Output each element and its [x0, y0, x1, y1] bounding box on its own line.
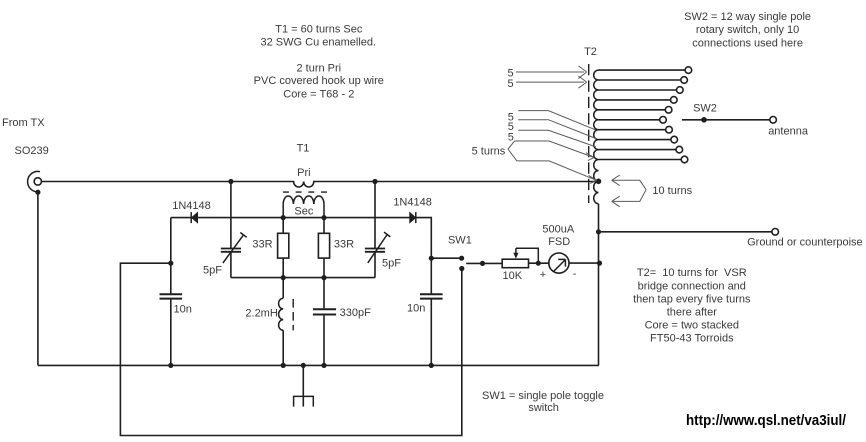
annotation line 5-5 — [518, 130, 596, 147]
switch SW1 — [431, 256, 502, 272]
wire T2 bottom lead — [598, 204, 600, 366]
terminal ground — [772, 229, 779, 236]
note T2 winding text block — [633, 267, 751, 345]
node SO239 shield junction — [35, 190, 40, 195]
tap 7 wire — [599, 129, 666, 131]
switch SW2 pole wire — [682, 119, 770, 121]
svg-text:Pri: Pri — [297, 167, 310, 179]
svg-text:+: + — [540, 269, 546, 281]
node pot wiper junction — [536, 261, 541, 266]
svg-text:there after: there after — [667, 307, 717, 319]
transformer T1 secondary winding — [283, 196, 324, 218]
svg-text:rotary switch, only 10: rotary switch, only 10 — [696, 24, 799, 36]
svg-text:SW2 = 12 way single pole: SW2 = 12 way single pole — [684, 11, 811, 23]
svg-text:antenna: antenna — [768, 126, 809, 138]
connector J1 SO239 center pin — [34, 178, 41, 185]
svg-text:Sec: Sec — [294, 206, 313, 218]
potentiometer R3 10K — [502, 248, 538, 268]
svg-text:5: 5 — [508, 78, 514, 90]
svg-text:1N4148: 1N4148 — [393, 197, 432, 209]
annotation line 5-1 — [516, 66, 587, 79]
annotation 5 turns lower branch — [508, 149, 597, 183]
resistor R1 33R left — [278, 218, 289, 278]
inductor L1 2.2mH — [279, 278, 284, 366]
node bottom rail 330pF leg — [321, 363, 326, 368]
tap 5 terminal — [665, 107, 672, 114]
node mid rail right resistor leg — [321, 275, 326, 280]
svg-text:T1: T1 — [297, 143, 310, 155]
svg-text:10n: 10n — [174, 304, 192, 316]
svg-text:5pF: 5pF — [203, 265, 222, 277]
node ground branch junction — [596, 229, 601, 234]
transformer T1 core dashed line — [283, 191, 327, 193]
tap 9 terminal — [676, 146, 683, 153]
tap 4 terminal — [671, 97, 678, 104]
wire pot to meter — [529, 262, 549, 264]
capacitor C1 trimmer arrow — [223, 233, 247, 264]
svg-text:http://www.qsl.net/va3iul/: http://www.qsl.net/va3iul/ — [686, 412, 847, 429]
diode D1 1N4148 left — [191, 212, 197, 223]
node bottom rail 10n left — [168, 363, 173, 368]
tap 10 terminal — [681, 156, 688, 163]
note SW2 text block — [684, 11, 811, 50]
capacitor C3 330pF — [313, 278, 336, 366]
svg-text:5: 5 — [508, 131, 514, 143]
tap 7 terminal — [666, 126, 673, 133]
node bottom rail inductor leg — [281, 363, 286, 368]
svg-text:33R: 33R — [334, 239, 354, 251]
node T2 return meter junction — [597, 261, 602, 266]
svg-text:2 turn Pri: 2 turn Pri — [296, 63, 341, 75]
wire meter to T2 return — [569, 262, 600, 264]
svg-text:bridge connection and: bridge connection and — [638, 280, 746, 292]
connector J1 SO239 body arc — [28, 171, 40, 191]
svg-text:FT50-43 Torroids: FT50-43 Torroids — [650, 333, 734, 345]
capacitor C1 plates — [221, 249, 241, 252]
tap 5 wire — [599, 109, 666, 111]
node bottom rail ground leg — [301, 363, 306, 368]
svg-text:10n: 10n — [407, 303, 425, 315]
annotation 10 turns lower arrow — [612, 190, 646, 207]
resistor R2 33R right — [318, 218, 329, 278]
svg-text:then tap every five turns: then tap every five turns — [633, 293, 751, 305]
tap 4 wire — [599, 99, 671, 101]
tap 3 wire — [599, 89, 677, 91]
terminal antenna — [770, 117, 777, 124]
note T1 winding text block — [254, 23, 384, 100]
svg-text:32 SWG Cu enamelled.: 32 SWG Cu enamelled. — [261, 37, 377, 49]
transformer T2 winding — [594, 70, 599, 204]
diode D2 1N4148 right — [410, 212, 416, 223]
svg-text:T2: T2 — [584, 46, 597, 58]
svg-text:SW1 = single pole toggle: SW1 = single pole toggle — [482, 390, 604, 402]
meter M1 500uA FSD — [549, 253, 569, 273]
wire lower return loop — [120, 263, 461, 435]
node mid rail left resistor leg — [281, 275, 286, 280]
node SW2 pole pivot — [701, 117, 707, 123]
capacitor C1 5pF variable left leads — [230, 182, 232, 278]
wire detector row from left corner through diodes — [171, 218, 432, 259]
tap 10 wire — [599, 159, 682, 161]
annotation line 5-2 — [516, 76, 587, 88]
svg-text:T1 = 60 turns Sec: T1 = 60 turns Sec — [275, 23, 363, 35]
svg-text:SW2: SW2 — [693, 103, 717, 115]
node 10n right top junction — [429, 256, 434, 261]
node 10n left branch tee — [168, 261, 173, 266]
svg-text:T2= 10 turns for VSR: T2= 10 turns for VSR — [637, 267, 747, 279]
tap 6 terminal — [660, 117, 667, 124]
svg-text:SO239: SO239 — [15, 145, 49, 157]
node secondary right lead — [321, 215, 326, 220]
capacitor C4 10n left — [160, 218, 183, 366]
transformer T2 core dashed line — [588, 64, 590, 203]
svg-text:1N4148: 1N4148 — [172, 200, 211, 212]
node T2 bus junction — [596, 179, 602, 185]
svg-text:FSD: FSD — [548, 236, 570, 248]
svg-text:-: - — [573, 268, 577, 280]
ground symbol — [293, 365, 314, 406]
wire ground branch — [599, 231, 772, 233]
svg-text:PVC covered hook up wire: PVC covered hook up wire — [254, 75, 384, 87]
svg-text:Core = two stacked: Core = two stacked — [645, 320, 739, 332]
tap 9 wire — [599, 149, 676, 151]
node secondary left lead — [281, 215, 286, 220]
capacitor C2 5pF variable right leads — [374, 182, 376, 278]
node bus left variable-cap tap — [228, 179, 233, 184]
tap 1 terminal — [685, 67, 692, 74]
tap 8 wire — [599, 139, 671, 141]
svg-text:33R: 33R — [252, 239, 272, 251]
svg-text:2.2mH: 2.2mH — [245, 308, 277, 320]
note SW1 text block — [482, 390, 604, 414]
tap 1 wire — [599, 69, 686, 71]
annotation line 5-4 — [518, 120, 596, 139]
annotation 10 turns upper arrow — [612, 175, 646, 190]
wire mid rail — [231, 277, 375, 279]
inductor L1 core dashed line — [292, 299, 294, 330]
svg-text:Core = T68 - 2: Core = T68 - 2 — [283, 89, 354, 101]
wire top bus from SO239 to T2 with T1 primary inline — [42, 182, 599, 187]
svg-text:connections used here: connections used here — [692, 37, 803, 49]
svg-text:switch: switch — [528, 402, 559, 414]
tap 2 terminal — [681, 77, 688, 84]
svg-text:5pF: 5pF — [382, 258, 401, 270]
tap 6 wire — [599, 119, 660, 121]
capacitor C2 trimmer arrow — [368, 232, 391, 263]
svg-text:10 turns: 10 turns — [652, 185, 692, 197]
svg-text:5 turns: 5 turns — [472, 146, 506, 158]
svg-text:SW1: SW1 — [448, 235, 472, 247]
node bottom rail 10n right — [429, 363, 434, 368]
svg-text:500uA: 500uA — [542, 224, 574, 236]
tap 8 terminal — [671, 136, 678, 143]
svg-text:Ground or counterpoise: Ground or counterpoise — [747, 237, 863, 249]
wire left vertical from SO239 shield to bottom rail — [37, 192, 39, 365]
capacitor C2 plates — [365, 249, 385, 252]
annotation 5 turns upper branch — [508, 141, 594, 161]
capacitor C5 10n right — [420, 258, 443, 365]
tap 3 terminal — [677, 87, 684, 94]
svg-text:330pF: 330pF — [340, 307, 371, 319]
tap 2 wire — [599, 79, 681, 81]
svg-text:10K: 10K — [503, 270, 523, 282]
wire bottom rail — [38, 364, 599, 366]
annotation line 5-3 — [518, 111, 596, 130]
node bus right variable-cap tap — [372, 179, 377, 184]
svg-text:From TX: From TX — [2, 117, 45, 129]
